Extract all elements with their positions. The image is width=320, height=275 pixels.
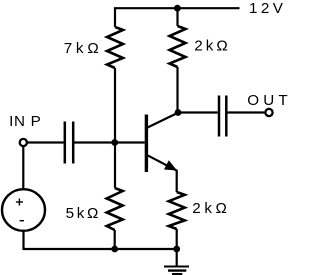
svg-text:OUT: OUT [247, 92, 292, 109]
svg-text:2kΩ: 2kΩ [194, 37, 230, 54]
svg-text:5kΩ: 5kΩ [66, 205, 102, 222]
svg-text:2kΩ: 2kΩ [192, 200, 230, 217]
svg-text:7kΩ: 7kΩ [64, 40, 103, 57]
svg-text:IN P: IN P [9, 113, 41, 130]
svg-text:12V: 12V [249, 0, 286, 17]
